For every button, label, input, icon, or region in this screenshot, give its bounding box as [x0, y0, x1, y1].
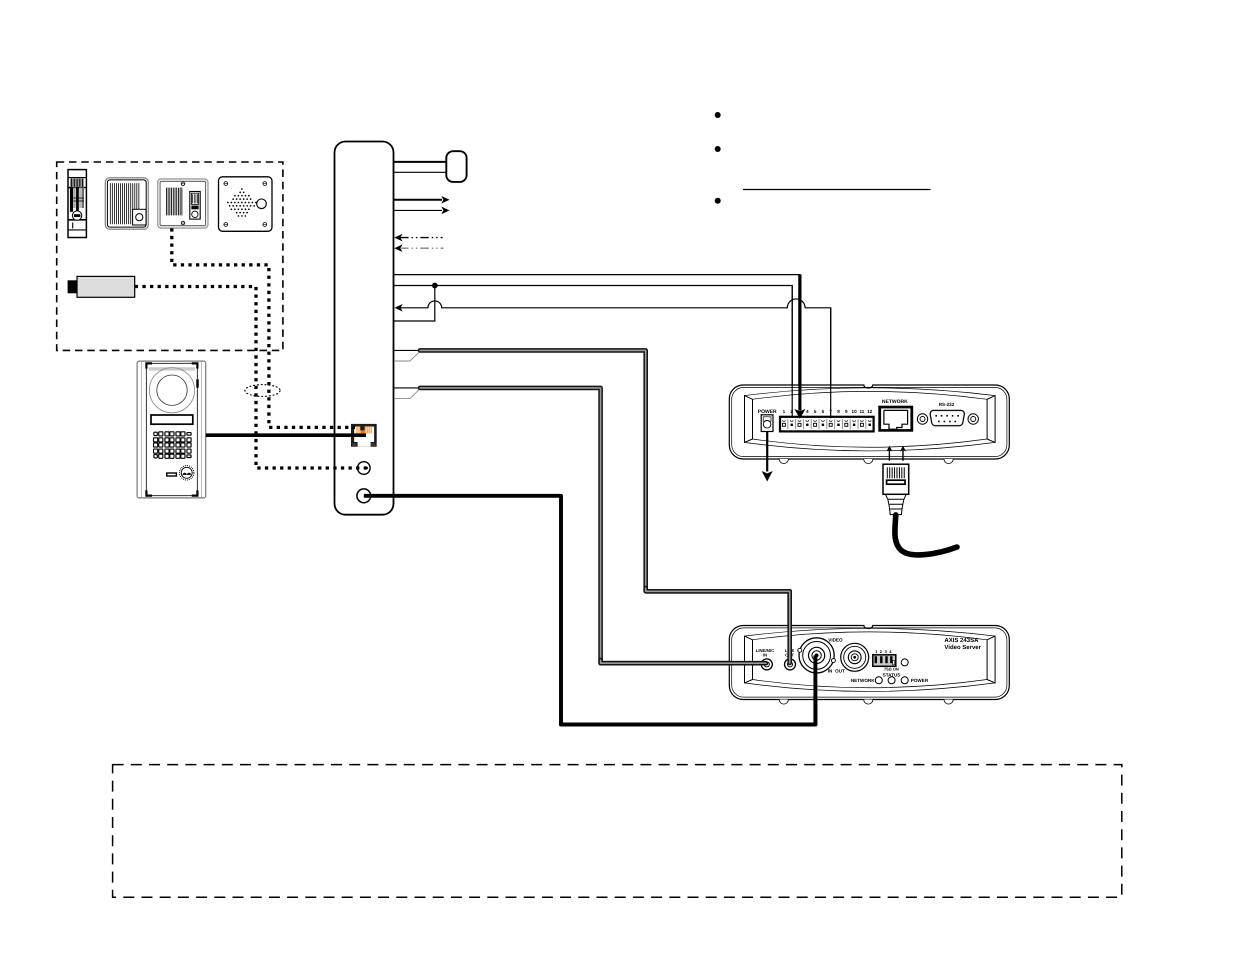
AXIS 243SA video server chassis [729, 626, 1009, 705]
svg-text:IN: IN [828, 668, 833, 673]
separator line [743, 189, 931, 191]
perforated speaker plate [219, 177, 273, 232]
svg-text:5: 5 [814, 409, 817, 414]
cable bundle ellipse [245, 385, 280, 397]
RS-232 DB9 connector [930, 410, 964, 425]
bullet 3 [715, 198, 721, 204]
VIDEO OUT BNC connector [841, 643, 869, 671]
dotted wire: camera to aux jack [135, 287, 367, 469]
svg-text:OUT: OUT [835, 668, 845, 673]
screw hole left [917, 414, 927, 424]
audio cable 1 overlay into LINE OUT [646, 588, 790, 663]
svg-text:NETWORK: NETWORK [851, 678, 875, 683]
svg-text:AXIS 243SA: AXIS 243SA [944, 637, 979, 644]
audio cable 2 overlay into LINE/MIC IN [601, 660, 766, 663]
wire C overlay: vertical into terminal pin 7 [830, 308, 832, 419]
bullet 1 [715, 112, 721, 118]
aux jack (small) on main unit [358, 462, 371, 475]
svg-text:RS-232: RS-232 [939, 402, 955, 407]
LINE OUT jack [785, 659, 796, 670]
aux LED circle [901, 659, 908, 666]
svg-text:10: 10 [852, 409, 858, 414]
input dash-dot arrow 1 [394, 234, 442, 242]
video door station [137, 361, 206, 498]
video cable: main unit to VIDEO IN BNC [364, 496, 816, 725]
thick wire: door station to RJ45 jack [206, 433, 366, 437]
DIP switch numbers [875, 649, 892, 654]
RJ45 jack on main unit [351, 424, 377, 447]
speaker panel with volume module [158, 179, 208, 228]
svg-text:12: 12 [867, 409, 873, 414]
LINE/MIC IN jack [761, 659, 772, 670]
main intercom exchange unit [335, 142, 394, 515]
power jack (top device) [761, 415, 773, 432]
svg-text:6: 6 [822, 409, 825, 414]
output arrow 2 [394, 207, 450, 215]
up arrow 1 into network port [887, 446, 893, 461]
wire B: main unit to terminal pin 2 [394, 286, 792, 418]
svg-text:POWER: POWER [911, 678, 929, 683]
svg-text:8: 8 [837, 409, 840, 414]
svg-text:4: 4 [806, 409, 809, 414]
video jack (large) on main unit [357, 489, 371, 503]
dotted wire: speaker panel to RJ45 jack [172, 228, 355, 427]
dashed enclosure box (peripheral devices) [57, 162, 283, 350]
door strike device [68, 170, 86, 238]
12-pin terminal block [780, 417, 874, 432]
branch wire from junction into main unit [394, 286, 435, 322]
camera module [68, 276, 135, 297]
intercom speaker station [105, 178, 148, 229]
svg-text:NETWORK: NETWORK [882, 399, 908, 405]
svg-text:VIDEO: VIDEO [828, 638, 843, 643]
power arrow down from top device [762, 432, 773, 482]
svg-text:9: 9 [845, 409, 848, 414]
wire A overlay: vertical into terminal pin 3 [794, 275, 805, 419]
audio cable 2: main unit to LINE/MIC IN jack [394, 388, 764, 663]
svg-text:11: 11 [859, 409, 864, 414]
audio cable 1: main unit to LINE OUT jack [394, 350, 790, 662]
NETWORK RJ45 port [878, 406, 913, 432]
svg-text:75Ω ON: 75Ω ON [884, 666, 899, 671]
wire B overlay: vertical into terminal pin 2 [791, 286, 793, 418]
LED circles [875, 677, 908, 684]
RJ45 plug with cable [883, 464, 957, 555]
svg-text:IN: IN [763, 653, 767, 658]
bottom dashed note box [113, 765, 1122, 898]
svg-text:Video Server: Video Server [944, 644, 981, 651]
input dash-dot arrow 2 [394, 244, 443, 252]
VIDEO IN BNC connector [798, 638, 836, 673]
junction dot on wire B [432, 283, 438, 289]
wire A: main unit to terminal pin 3 (thick arrow) [394, 275, 805, 419]
wire C: terminal pin 7 to main unit (left arrow, with hops) [395, 299, 831, 418]
svg-text:1: 1 [783, 409, 786, 414]
DIP switch block [873, 655, 896, 667]
bullet 2 [715, 146, 721, 152]
screw hole right [968, 414, 978, 424]
video cable overlay into VIDEO IN BNC [561, 655, 815, 724]
AXIS parallel/serial server chassis [729, 385, 1009, 464]
wall-mount stub and knob [394, 151, 467, 182]
up arrow 2 into network port [900, 446, 906, 461]
svg-text:POWER: POWER [758, 409, 777, 415]
output arrow 1 [394, 196, 450, 204]
terminal pin numbers [783, 409, 873, 414]
